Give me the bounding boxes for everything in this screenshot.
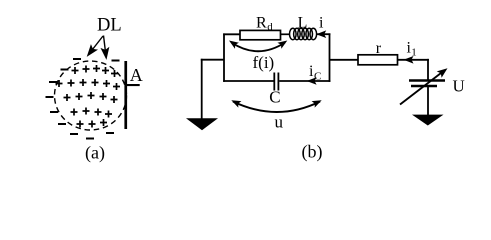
capacitor U top plate	[409, 79, 445, 82]
svg-text:A: A	[130, 65, 143, 85]
electrode A lead	[127, 84, 140, 86]
svg-text:u: u	[275, 113, 284, 132]
current arrow i	[316, 30, 326, 38]
f(i) arc arrow	[232, 43, 286, 52]
svg-text:r: r	[376, 40, 382, 57]
negative charges	[46, 59, 120, 139]
electrode A plate	[124, 61, 127, 129]
variable arrow through U	[400, 72, 443, 105]
loop right edge	[329, 33, 331, 82]
svg-text:L: L	[298, 15, 308, 32]
svg-text:(b): (b)	[302, 142, 323, 163]
svg-text:f(i): f(i)	[253, 53, 275, 72]
wire bottom-left	[223, 80, 273, 82]
svg-text:(a): (a)	[85, 143, 105, 164]
resistor r	[358, 55, 398, 65]
capacitor U bottom plate	[411, 85, 437, 88]
current arrow i1	[404, 56, 414, 64]
wire Rd to L	[281, 33, 291, 35]
wire left branch horizontal	[201, 59, 224, 61]
loop left edge	[223, 33, 225, 82]
svg-text:DL: DL	[97, 16, 122, 36]
ground left	[186, 118, 218, 130]
wire top-left	[223, 33, 241, 35]
inductor L	[290, 28, 317, 39]
svg-text:1: 1	[411, 47, 417, 59]
ground right	[412, 115, 444, 126]
svg-text:U: U	[453, 77, 465, 96]
svg-text:R: R	[256, 15, 267, 32]
wire L to corner	[317, 33, 331, 35]
wire bottom-right	[279, 80, 330, 82]
wire right branch to r	[330, 59, 360, 61]
DL pointer arrow right	[102, 36, 109, 59]
voltage arc u	[233, 102, 320, 113]
svg-text:i: i	[319, 15, 324, 32]
svg-text:C: C	[314, 71, 321, 83]
dashed circle (double layer boundary)	[55, 61, 127, 130]
wire corner down to U	[427, 59, 429, 80]
svg-text:C: C	[269, 88, 280, 107]
wire left branch vertical	[201, 59, 203, 119]
wire r to corner	[398, 59, 429, 61]
current arrow iC	[307, 77, 317, 85]
svg-text:d: d	[267, 21, 273, 33]
DL pointer arrow left	[85, 36, 103, 57]
positive charges	[56, 65, 121, 128]
wire U to ground	[427, 86, 429, 115]
capacitor C plates	[273, 73, 275, 91]
resistor Rd	[240, 30, 281, 39]
